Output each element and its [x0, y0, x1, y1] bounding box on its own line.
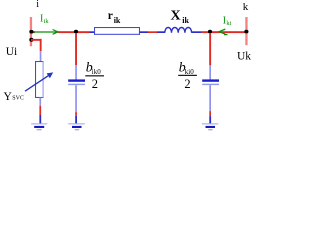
svg-text:ik0: ik0 — [92, 68, 101, 76]
svg-text:2: 2 — [92, 77, 98, 91]
junction dot: bus i / SVC stub — [29, 38, 33, 42]
shunt i branch upper wire (red then light blue) — [75, 33, 77, 80]
svg-text:Ui: Ui — [6, 46, 18, 58]
SVC upper lead (light blue) — [40, 51, 42, 61]
label X_ik — [171, 8, 190, 25]
svg-text:i: i — [36, 0, 39, 10]
SVC stub wire (red) — [31, 39, 42, 51]
resistor r_ik — [94, 27, 140, 35]
svg-text:ki: ki — [226, 20, 231, 27]
label Ysvc — [4, 91, 24, 103]
label b_ki0/2 — [178, 60, 197, 91]
label b_ik0/2 — [85, 60, 104, 91]
label r_ik — [108, 10, 121, 25]
wire: bus i to resistor (red) — [31, 31, 90, 33]
svg-text:ik: ik — [182, 16, 189, 25]
shunt k branch lower wire — [209, 85, 211, 124]
wire: red-to-blue lead into resistor — [90, 31, 95, 33]
bus i bar — [30, 17, 32, 46]
junction dot: bus i / line — [29, 30, 33, 34]
svg-text:Uk: Uk — [237, 50, 251, 62]
SVC box Y_svc — [35, 61, 44, 98]
label Iki — [223, 16, 232, 27]
svg-text:X: X — [171, 8, 181, 23]
SVC lower lead (light blue / red / light blue) — [39, 98, 41, 124]
node k label — [243, 1, 249, 13]
shunt k branch upper wire (red then light blue) — [209, 33, 211, 80]
capacitor b_ik0/2 plates — [68, 79, 85, 85]
svg-text:Y: Y — [4, 91, 13, 103]
ground (shunt k) — [202, 123, 219, 130]
svg-text:ik: ik — [114, 16, 121, 25]
junction dot: shunt i branch — [74, 30, 78, 34]
wire: resistor to inductor (blue,red,blue) — [140, 31, 166, 33]
svg-text:ki0: ki0 — [185, 68, 194, 76]
wire: inductor to bus k (blue then red) — [192, 31, 247, 33]
ground (SVC) — [31, 123, 47, 130]
label Uk — [237, 50, 251, 62]
shunt i branch lower wire — [75, 85, 77, 124]
svg-text:SVC: SVC — [12, 96, 24, 102]
junction dot: bus k — [244, 30, 248, 34]
SVC variable arrow — [25, 72, 53, 91]
inductor X_ik coil — [165, 27, 192, 32]
bus k bar — [245, 17, 247, 45]
label Iik — [40, 14, 49, 25]
svg-text:ik: ik — [44, 18, 50, 25]
label Ui — [6, 46, 18, 58]
node i label — [36, 0, 39, 10]
current arrow Iik — [34, 30, 59, 35]
ground (shunt i) — [68, 123, 85, 130]
svg-text:k: k — [243, 1, 249, 13]
svg-text:2: 2 — [184, 77, 190, 91]
junction dot: shunt k branch — [208, 30, 212, 34]
svg-text:r: r — [108, 10, 113, 22]
current arrowhead Iki (green, pointing left) — [219, 29, 227, 34]
capacitor b_ki0/2 plates — [202, 79, 219, 85]
